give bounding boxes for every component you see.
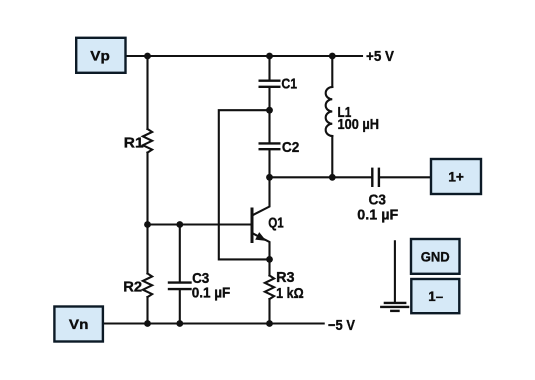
wire R3 to bottom rail bbox=[268, 299, 270, 323]
svg-text:1+: 1+ bbox=[448, 169, 464, 185]
junction dot bottom rail C3 bbox=[176, 320, 183, 327]
junction dot base node R1/R2 bbox=[144, 221, 151, 228]
terminal box 1+ bbox=[431, 159, 481, 194]
terminal box 1- bbox=[411, 279, 459, 313]
junction dot L1 bottom bbox=[329, 174, 336, 181]
svg-text:0.1 µF: 0.1 µF bbox=[192, 284, 231, 301]
junction dot emitter node bbox=[266, 256, 273, 263]
wire R1 to base node bbox=[146, 153, 148, 274]
svg-text:1 kΩ: 1 kΩ bbox=[276, 285, 304, 302]
svg-text:1–: 1– bbox=[428, 288, 443, 304]
svg-text:R1: R1 bbox=[124, 134, 144, 151]
junction dot bottom rail R2 bbox=[144, 320, 151, 327]
capacitor C2 plates bbox=[260, 142, 280, 144]
junction dot base node C3 bbox=[176, 221, 183, 228]
junction dot node A (C1/C2) bbox=[266, 107, 273, 114]
ground stem bbox=[394, 241, 396, 303]
svg-text:Vp: Vp bbox=[90, 47, 110, 63]
junction dot bottom rail R3 bbox=[266, 320, 273, 327]
wire R2 to bottom rail bbox=[146, 297, 148, 323]
wire feedback: node A left bbox=[219, 110, 270, 259]
svg-text:Vn: Vn bbox=[69, 316, 89, 332]
wire bottom rail -5V bbox=[103, 322, 324, 324]
wire series C3 to 1+ box bbox=[380, 176, 431, 178]
capacitor C3 shunt plates bbox=[169, 281, 191, 283]
svg-text:C2: C2 bbox=[282, 139, 299, 156]
svg-text:−5 V: −5 V bbox=[328, 317, 355, 334]
resistor R3 bbox=[265, 276, 274, 300]
svg-text:R2: R2 bbox=[123, 278, 142, 295]
terminal box GND bbox=[411, 239, 460, 274]
junction dot Vp node bbox=[144, 53, 151, 60]
ground bars bbox=[385, 302, 405, 304]
wire output row to series C3 bbox=[270, 176, 372, 178]
transistor Q1 emitter arrow bbox=[255, 232, 266, 241]
svg-text:100 µH: 100 µH bbox=[338, 116, 380, 133]
wire main column top (rail to C1) bbox=[268, 56, 270, 80]
wire L1 top lead bbox=[331, 56, 333, 87]
svg-text:0.1 µF: 0.1 µF bbox=[357, 206, 398, 223]
svg-text:C1: C1 bbox=[281, 76, 297, 93]
svg-text:GND: GND bbox=[421, 248, 450, 264]
wire R1 column (Vp node down through base node to bottom rail) bbox=[146, 56, 148, 129]
capacitor C1 plates bbox=[260, 79, 280, 81]
junction dot C1 top bbox=[266, 53, 273, 60]
wire C1 to node A bbox=[268, 88, 270, 110]
terminal box Vp bbox=[76, 38, 125, 73]
wire C2 to output node bbox=[268, 150, 270, 177]
wire C3 column bottom bbox=[179, 290, 181, 323]
wire emitter node to R3 bbox=[268, 259, 270, 275]
transistor Q1 emitter lead bbox=[253, 234, 269, 260]
terminal box Vn bbox=[54, 307, 103, 342]
wire collector lead bbox=[253, 177, 269, 215]
wire C3 column top bbox=[179, 225, 181, 282]
junction dot L1 top bbox=[329, 53, 336, 60]
inductor L1 coil bbox=[326, 87, 333, 136]
capacitor C3 series plates bbox=[371, 169, 373, 186]
wire node A to C2 bbox=[268, 110, 270, 142]
resistor R1 bbox=[143, 129, 152, 153]
resistor R2 bbox=[143, 274, 152, 298]
svg-text:Q1: Q1 bbox=[268, 215, 284, 232]
junction dot output node bbox=[266, 174, 273, 181]
svg-text:+5 V: +5 V bbox=[366, 48, 394, 65]
svg-text:R3: R3 bbox=[276, 269, 294, 286]
wire base lead bbox=[148, 223, 251, 225]
wire L1 bottom lead bbox=[331, 136, 333, 177]
wire top rail +5V bbox=[126, 55, 363, 57]
transistor Q1 base bar bbox=[251, 209, 254, 242]
